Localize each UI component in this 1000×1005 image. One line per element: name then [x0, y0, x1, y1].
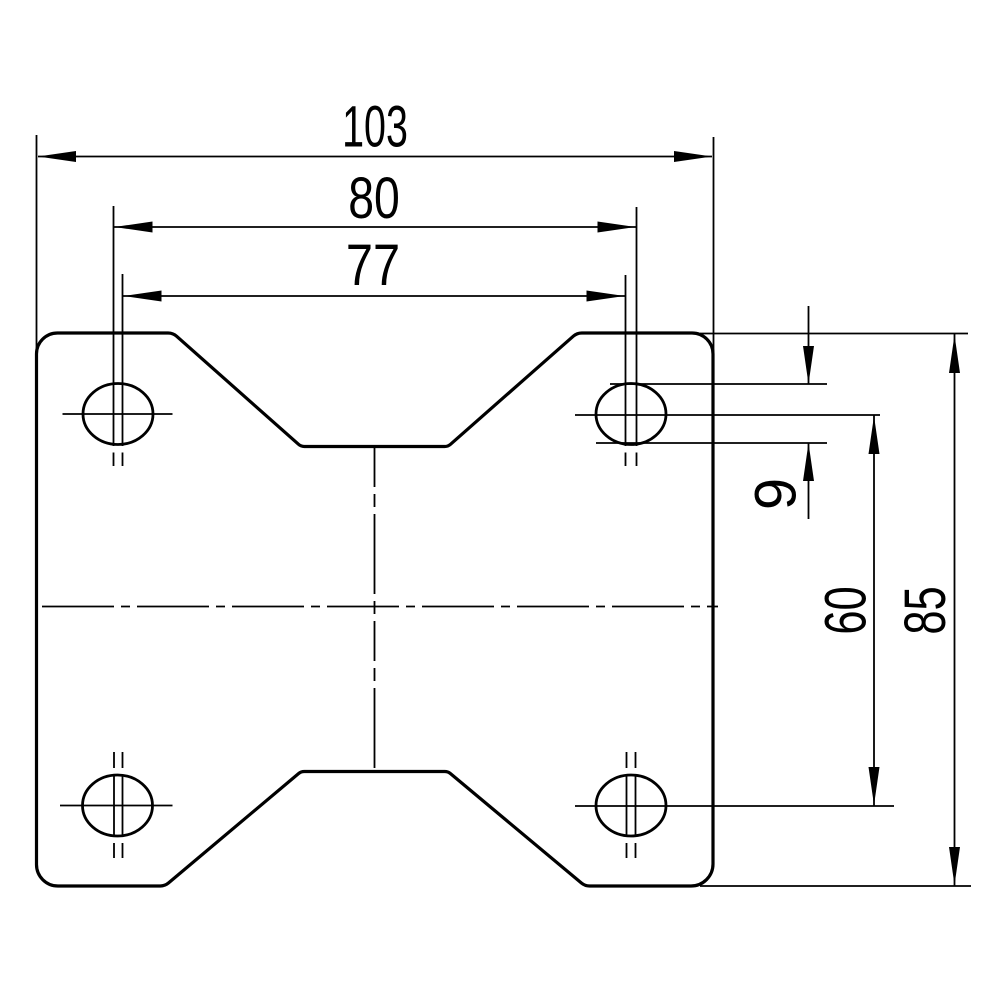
svg-text:103: 103: [342, 94, 408, 159]
svg-text:60: 60: [813, 586, 877, 634]
svg-text:85: 85: [893, 586, 957, 634]
svg-text:80: 80: [348, 166, 400, 231]
svg-text:9: 9: [744, 478, 809, 510]
svg-text:77: 77: [346, 234, 400, 298]
